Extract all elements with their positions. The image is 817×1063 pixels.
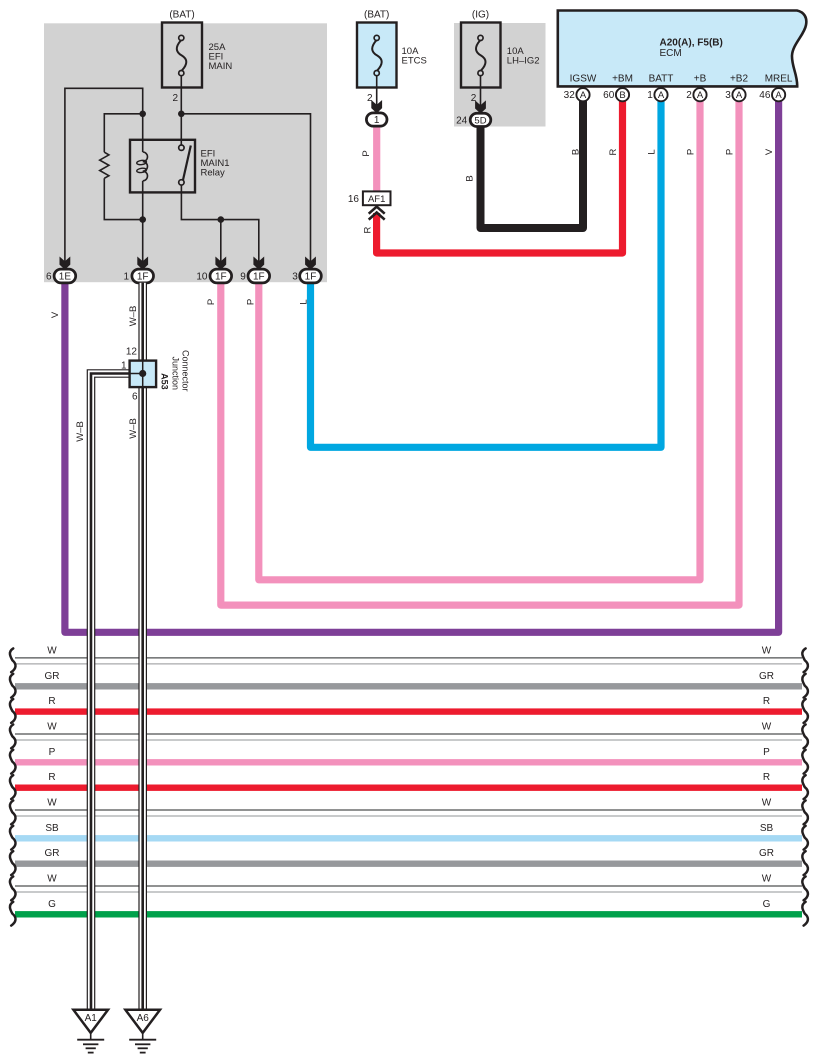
wire switch output to 9(1F) run <box>181 184 258 262</box>
bus wire G left break squiggle <box>10 902 16 926</box>
bus wire R right break squiggle <box>802 699 808 723</box>
fuse 10A ETCS symbol <box>374 35 379 40</box>
connector oval 9(1F) <box>248 269 270 283</box>
connector oval 1(1F) <box>132 269 154 283</box>
svg-text:1: 1 <box>123 272 129 283</box>
connector arrow into 9(1F) <box>253 257 264 270</box>
svg-text:ECM: ECM <box>660 48 682 59</box>
bus wire P right break squiggle <box>802 750 808 774</box>
connector arrow into oval 5D <box>475 100 486 113</box>
fuse 25A EFI MAIN box <box>162 23 202 88</box>
svg-text:P: P <box>206 299 217 305</box>
svg-text:A: A <box>580 90 587 101</box>
svg-text:MAIN: MAIN <box>209 61 233 72</box>
svg-text:6: 6 <box>46 272 52 283</box>
svg-text:R: R <box>48 696 55 707</box>
connector arrow into 10(1F) <box>215 257 226 270</box>
wire P (pink) +B: ECM pin 2 to 9(1F) <box>259 101 700 580</box>
junction connector A53 box <box>130 361 157 388</box>
bus wire W at y=889.0 <box>15 885 802 887</box>
svg-text:(IG): (IG) <box>472 10 489 21</box>
svg-text:W: W <box>47 874 57 885</box>
bus wire SB left break squiggle <box>10 826 16 850</box>
svg-text:P: P <box>361 150 372 156</box>
bus wire W right break squiggle <box>802 725 808 749</box>
svg-text:A: A <box>697 90 704 101</box>
bus wire W left break squiggle <box>10 648 16 672</box>
wire L (blue) BATT: ECM pin 1 to 3(1F) <box>311 101 662 447</box>
connector oval 10(1F) <box>210 269 232 283</box>
svg-text:W: W <box>762 798 772 809</box>
svg-text:1: 1 <box>121 360 127 371</box>
svg-text:G: G <box>48 899 56 910</box>
bus wire R left break squiggle <box>10 699 16 723</box>
node: coil bottom junction <box>139 216 146 223</box>
bus wire W at y=660.9 <box>15 657 802 659</box>
wire fuse ETCS to connector 1 <box>376 76 378 106</box>
bus wire P at y=762.3 <box>15 759 802 765</box>
wire coil bottom to 1(1F) <box>142 181 144 262</box>
wire P (pink) ETCS fuse to AF1 <box>373 126 380 192</box>
fuse 10A LH-IG2 symbol <box>478 35 483 40</box>
wire branch to 10(1F) <box>220 220 222 262</box>
svg-text:+BM: +BM <box>612 74 633 85</box>
relay coil <box>143 152 148 181</box>
bus wire GR right break squiggle <box>802 851 808 875</box>
svg-text:12: 12 <box>126 346 138 357</box>
svg-text:GR: GR <box>45 848 60 859</box>
IG fuse gray background <box>454 23 546 127</box>
ground A1 <box>73 1010 108 1033</box>
svg-text:P: P <box>245 299 256 305</box>
resistor (relay coil shunt) <box>100 152 109 178</box>
connector oval 5D <box>470 113 491 126</box>
fuse 25A EFI MAIN symbol <box>179 35 184 40</box>
bus wire P left break squiggle <box>10 750 16 774</box>
svg-text:P: P <box>49 747 56 758</box>
svg-text:GR: GR <box>759 671 774 682</box>
AF1 male connector chevrons <box>369 207 385 214</box>
bus wire R left break squiggle <box>10 775 16 799</box>
svg-text:B: B <box>619 90 625 101</box>
svg-text:1F: 1F <box>215 272 227 283</box>
svg-text:GR: GR <box>759 848 774 859</box>
fuse 10A LH-IG2 box <box>461 23 501 88</box>
bus wire W at y=813.0 <box>15 809 802 811</box>
svg-text:32: 32 <box>564 90 576 101</box>
svg-text:W–B: W–B <box>75 421 86 442</box>
svg-text:B: B <box>571 149 582 155</box>
bus wire W left break squiggle <box>10 801 16 825</box>
wire W-B from A53 pin 6 to ground A6 <box>138 387 147 1009</box>
bus wire GR at y=863.7 <box>15 861 802 867</box>
svg-text:6: 6 <box>132 392 138 403</box>
svg-text:W: W <box>762 874 772 885</box>
svg-text:2: 2 <box>172 93 178 104</box>
svg-text:1: 1 <box>374 115 380 126</box>
connector arrow into 6(1E) <box>60 257 71 270</box>
svg-text:V: V <box>50 311 61 318</box>
svg-text:Junction: Junction <box>171 357 181 391</box>
bus wire W at y=737.0 <box>15 733 802 735</box>
svg-text:A6: A6 <box>137 1013 150 1024</box>
bus wire SB at y=838.3 <box>15 835 802 841</box>
svg-text:A1: A1 <box>85 1013 98 1024</box>
svg-text:1E: 1E <box>59 272 72 283</box>
connector arrow into oval 1 <box>371 100 382 113</box>
svg-text:A: A <box>658 90 665 101</box>
svg-text:G: G <box>763 899 771 910</box>
relay block gray background <box>44 23 327 282</box>
node: +B branch junction <box>218 216 225 223</box>
svg-text:V: V <box>764 148 775 155</box>
wire MREL feed: 1E riser, top run, down to coil node <box>65 88 143 262</box>
svg-text:2: 2 <box>686 90 692 101</box>
svg-text:A20(A), F5(B): A20(A), F5(B) <box>660 37 723 48</box>
connector AF1 box <box>363 191 391 205</box>
bus wire R right break squiggle <box>802 775 808 799</box>
wire V (violet) MREL: ECM pin 46 to 6(1E) <box>65 101 779 632</box>
svg-text:A: A <box>736 90 743 101</box>
svg-text:AF1: AF1 <box>368 194 385 205</box>
svg-text:ETCS: ETCS <box>402 55 427 66</box>
svg-text:1F: 1F <box>137 272 149 283</box>
svg-text:R: R <box>48 772 55 783</box>
bus wire R at y=787.7 <box>15 785 802 791</box>
svg-text:(BAT): (BAT) <box>169 10 194 21</box>
svg-text:5D: 5D <box>474 115 486 126</box>
svg-text:16: 16 <box>348 194 360 205</box>
svg-text:IGSW: IGSW <box>570 74 597 85</box>
bus wire W left break squiggle <box>10 877 16 901</box>
svg-text:W–B: W–B <box>128 306 139 327</box>
svg-text:A53: A53 <box>159 373 169 390</box>
wire P (pink) +B2: ECM pin 3 to 10(1F) <box>221 101 739 605</box>
svg-text:BATT: BATT <box>649 74 674 85</box>
wire resistor top branch <box>104 114 142 152</box>
svg-text:SB: SB <box>760 823 774 834</box>
wire fuse node to 3(1F) <box>181 114 310 262</box>
svg-text:W: W <box>47 798 57 809</box>
svg-text:Relay: Relay <box>201 167 226 178</box>
bus wire W right break squiggle <box>802 648 808 672</box>
svg-text:W: W <box>762 645 772 656</box>
connector oval 1 <box>366 113 387 126</box>
bus wire GR right break squiggle <box>802 674 808 698</box>
relay EFI MAIN1 box <box>130 140 195 193</box>
node: fuse/switch/BATT junction <box>178 111 185 118</box>
bus wire GR at y=686.3 <box>15 683 802 689</box>
svg-text:L: L <box>299 299 310 304</box>
svg-text:W: W <box>47 645 57 656</box>
connector arrow into 1(1F) <box>137 257 148 270</box>
svg-text:+B2: +B2 <box>730 74 749 85</box>
wire W-B from 1(1F) to junction connector A53 <box>138 283 147 361</box>
svg-text:1: 1 <box>647 90 653 101</box>
ECM box A20(A), F5(B) <box>558 11 807 87</box>
bus wire G at y=914.3 <box>15 911 802 917</box>
svg-text:P: P <box>686 149 697 155</box>
connector oval 3(1F) <box>300 269 322 283</box>
bus wire R at y=711.6 <box>15 708 802 714</box>
bus wire GR left break squiggle <box>10 674 16 698</box>
wire fuse EFI MAIN to node/switch <box>180 76 182 148</box>
svg-text:Connector: Connector <box>180 350 190 392</box>
relay switch <box>179 145 184 150</box>
connector oval 6(1E) <box>54 269 76 283</box>
svg-text:P: P <box>763 747 770 758</box>
svg-text:MREL: MREL <box>765 74 793 85</box>
svg-text:60: 60 <box>603 90 615 101</box>
wire resistor bottom to coil bottom node <box>104 178 142 219</box>
svg-text:R: R <box>763 696 770 707</box>
bus wire W left break squiggle <box>10 725 16 749</box>
svg-text:46: 46 <box>759 90 771 101</box>
connector arrow into 3(1F) <box>305 257 316 270</box>
svg-text:(BAT): (BAT) <box>364 10 389 21</box>
svg-text:1F: 1F <box>253 272 265 283</box>
svg-text:1F: 1F <box>305 272 317 283</box>
bus wire GR left break squiggle <box>10 851 16 875</box>
svg-text:10: 10 <box>196 272 208 283</box>
svg-text:P: P <box>725 149 736 155</box>
ground A6 <box>125 1010 160 1033</box>
wire B (black) IGSW: ECM pin 32 to 5D <box>481 101 584 228</box>
svg-text:B: B <box>465 175 476 181</box>
svg-text:LH–IG2: LH–IG2 <box>507 55 540 66</box>
svg-text:W–B: W–B <box>128 418 139 439</box>
wire coil feed through relay <box>142 114 144 152</box>
wire R (red) +BM: ECM pin 60 to AF1 <box>377 101 623 253</box>
svg-text:R: R <box>608 148 619 155</box>
svg-text:R: R <box>763 772 770 783</box>
bus wire W right break squiggle <box>802 801 808 825</box>
node: coil/resistor top junction <box>139 111 146 118</box>
wire W-B from A53 pin 1 to ground A1 <box>91 374 131 1010</box>
wire fuse LH-IG2 to connector 5D <box>480 76 482 107</box>
svg-text:A: A <box>775 90 782 101</box>
bus wire SB right break squiggle <box>802 826 808 850</box>
svg-text:R: R <box>363 226 374 233</box>
svg-text:SB: SB <box>45 823 59 834</box>
svg-text:+B: +B <box>694 74 707 85</box>
svg-text:3: 3 <box>725 90 731 101</box>
node inside A53 <box>139 370 146 377</box>
bus wire W right break squiggle <box>802 877 808 901</box>
svg-text:GR: GR <box>45 671 60 682</box>
svg-text:W: W <box>47 722 57 733</box>
bus wire G right break squiggle <box>802 902 808 926</box>
svg-text:3: 3 <box>292 272 298 283</box>
svg-text:9: 9 <box>240 272 246 283</box>
svg-text:L: L <box>647 149 658 154</box>
svg-text:24: 24 <box>456 115 468 126</box>
fuse 10A ETCS box <box>357 23 397 88</box>
svg-text:W: W <box>762 722 772 733</box>
